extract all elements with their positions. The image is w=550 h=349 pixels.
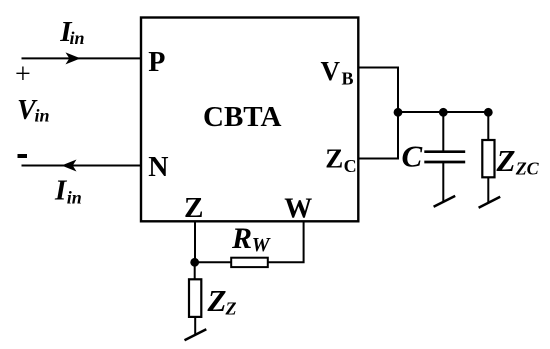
svg-text:+: + xyxy=(15,59,31,90)
wire N input xyxy=(22,165,142,167)
svg-text:in: in xyxy=(70,28,85,48)
svg-text:N: N xyxy=(148,152,168,183)
junction node at Z xyxy=(190,258,199,267)
svg-text:W: W xyxy=(252,234,271,256)
arrow on P wire xyxy=(66,52,81,64)
svg-text:B: B xyxy=(342,69,354,89)
label minus xyxy=(18,154,28,158)
label ZZC xyxy=(496,143,540,179)
ground under ZZC xyxy=(479,197,501,208)
svg-text:in: in xyxy=(35,106,50,126)
svg-text:V: V xyxy=(321,56,341,86)
wire capacitor bottom xyxy=(442,162,444,201)
wire node to RW xyxy=(195,261,231,263)
wire ZZC bottom xyxy=(487,177,489,202)
svg-text:Z: Z xyxy=(496,143,516,178)
svg-text:in: in xyxy=(67,188,82,208)
resistor RW xyxy=(231,258,268,267)
wire P input xyxy=(22,57,142,59)
junction node at VB/ZC xyxy=(394,108,403,117)
svg-text:Z: Z xyxy=(207,283,227,318)
wire ZZ bottom xyxy=(194,317,196,335)
junction node at ZZC xyxy=(484,108,493,117)
svg-text:ZC: ZC xyxy=(515,159,540,179)
label Iin bottom xyxy=(54,174,82,207)
svg-text:CBTA: CBTA xyxy=(203,101,281,133)
svg-text:W: W xyxy=(284,194,312,225)
svg-text:C: C xyxy=(344,156,357,176)
impedance ZZC xyxy=(482,140,494,177)
capacitor C1 xyxy=(424,152,465,162)
wire Z terminal down xyxy=(194,222,196,262)
svg-text:R: R xyxy=(231,222,252,255)
wire node bus to right xyxy=(398,111,488,113)
svg-text:Z: Z xyxy=(325,143,343,173)
CBTA box U1 xyxy=(141,18,358,222)
arrow on N wire xyxy=(62,160,77,172)
junction node at capacitor xyxy=(439,108,448,117)
label ZZ xyxy=(207,283,237,319)
wire node to ZZ xyxy=(194,262,196,280)
wire ZZC top xyxy=(487,112,489,141)
svg-text:Z: Z xyxy=(225,299,237,319)
ground under ZZ xyxy=(185,329,207,340)
wire capacitor top xyxy=(442,112,444,151)
svg-text:P: P xyxy=(148,47,165,78)
impedance ZZ xyxy=(189,279,201,317)
ground under capacitor xyxy=(434,196,456,207)
terminal label VB xyxy=(321,56,354,89)
label Iin top xyxy=(59,16,84,48)
svg-text:C: C xyxy=(402,139,423,174)
wire VB output xyxy=(358,68,398,113)
label Vin xyxy=(17,95,50,126)
wire RW to W terminal xyxy=(268,222,304,262)
label RW xyxy=(231,222,271,256)
terminal label ZC xyxy=(325,143,356,176)
svg-text:Z: Z xyxy=(184,193,204,224)
wire ZC output xyxy=(358,112,398,159)
